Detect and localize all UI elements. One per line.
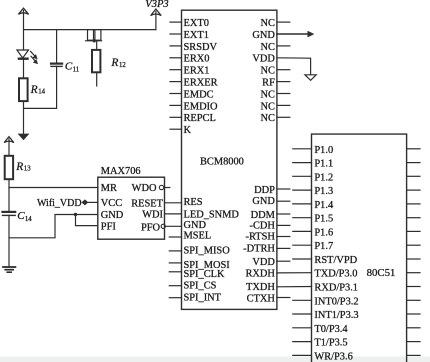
svg-text:P1.7: P1.7: [314, 241, 333, 252]
wire: PFI to GND net: [76, 215, 98, 226]
svg-text:EXT1: EXT1: [184, 30, 209, 41]
svg-text:-DTRH: -DTRH: [243, 244, 275, 255]
wire: WDI to LED_SNMD: [165, 213, 182, 215]
svg-text:Wifi_VDD: Wifi_VDD: [37, 198, 82, 209]
svg-text:VCC: VCC: [101, 198, 122, 209]
svg-text:DDM: DDM: [251, 210, 275, 221]
svg-text:P1.3: P1.3: [314, 186, 333, 197]
IC U3 80C51: [312, 134, 407, 362]
svg-text:GND: GND: [252, 196, 275, 207]
svg-text:RXDH: RXDH: [245, 268, 275, 279]
svg-text:R: R: [15, 161, 23, 173]
svg-text:P1.4: P1.4: [314, 200, 334, 211]
svg-text:SPI_INT: SPI_INT: [184, 293, 222, 304]
resistor R12: [92, 50, 126, 86]
wire: TXDH to RXD/P3.1: [277, 286, 312, 288]
svg-text:TXDH: TXDH: [246, 282, 275, 293]
svg-text:NC: NC: [260, 113, 275, 124]
svg-text:R: R: [30, 84, 38, 96]
svg-text:SPI_CS: SPI_CS: [184, 281, 217, 292]
resistor R14: [19, 78, 46, 101]
wire: R14 bottom to ground: [23, 101, 25, 134]
wire: MR net: [9, 187, 98, 189]
wire: VDD pin to ground arrow: [277, 58, 311, 75]
ground (filled arrow): [19, 134, 28, 139]
svg-text:EMDC: EMDC: [184, 89, 214, 100]
svg-text:INT1/P3.3: INT1/P3.3: [314, 310, 358, 321]
svg-text:ERX0: ERX0: [184, 54, 210, 65]
svg-text:RXD/P3.1: RXD/P3.1: [314, 283, 358, 294]
svg-text:P1.0: P1.0: [314, 145, 333, 156]
svg-text:SRSDV: SRSDV: [184, 42, 218, 53]
svg-text:T0/P3.4: T0/P3.4: [314, 324, 348, 335]
svg-text:BCM8000: BCM8000: [200, 157, 244, 168]
wire: arrow to R13: [8, 139, 10, 156]
svg-text:EXT0: EXT0: [184, 18, 209, 29]
junction: PFI/GND: [74, 213, 77, 216]
svg-text:RES: RES: [184, 197, 203, 208]
svg-text:REPCL: REPCL: [184, 113, 216, 124]
svg-text:SPI_MISO: SPI_MISO: [184, 246, 231, 257]
svg-text:K: K: [184, 125, 192, 136]
svg-text:GND: GND: [184, 220, 207, 231]
svg-text:ERXER: ERXER: [184, 78, 218, 89]
80C51 left pin labels: [314, 145, 358, 362]
svg-text:P1.6: P1.6: [314, 227, 333, 238]
wire: RXDH to TXD/P3.0: [277, 272, 312, 274]
svg-text:P1.2: P1.2: [314, 172, 333, 183]
svg-text:MSEL: MSEL: [184, 231, 212, 242]
svg-text:NC: NC: [260, 18, 275, 29]
capacitor C14: [3, 210, 33, 223]
svg-text:GND: GND: [252, 30, 275, 41]
BCM8000 left pin stubs (top group): [170, 22, 182, 129]
svg-text:12: 12: [119, 62, 126, 69]
svg-text:ERX1: ERX1: [184, 66, 210, 77]
svg-text:NC: NC: [260, 66, 275, 77]
svg-text:13: 13: [24, 165, 31, 172]
earth ground: [3, 267, 15, 272]
svg-text:-CDH: -CDH: [249, 220, 275, 231]
power arrow (above R13): [4, 137, 14, 143]
pin WDO bubble and stub: [159, 185, 170, 189]
svg-text:RESET: RESET: [131, 199, 163, 210]
svg-text:PFO: PFO: [141, 222, 161, 233]
wire: top rail: [24, 29, 156, 31]
pin PFO bubble: [161, 224, 165, 228]
ground (open arrow at VDD): [305, 75, 316, 81]
svg-text:NC: NC: [260, 101, 275, 112]
wire: GND net (C14 to MAX706 GND): [9, 215, 98, 238]
svg-text:80C51: 80C51: [367, 267, 396, 279]
svg-text:NC: NC: [260, 42, 275, 53]
BCM8000 left pin labels (top group): [184, 18, 219, 136]
svg-text:MAX706: MAX706: [101, 166, 141, 177]
wire: power arrow to LED anode: [23, 11, 25, 51]
power V3P3: [145, 0, 168, 30]
svg-text:-RTSH: -RTSH: [245, 232, 275, 243]
wire: LED cathode to R14: [23, 59, 25, 79]
svg-text:P1.5: P1.5: [314, 214, 333, 225]
svg-text:INT0/P3.2: INT0/P3.2: [314, 296, 358, 307]
ferrite bead FB1: [86, 30, 102, 50]
node Wifi_VDD: [37, 198, 98, 209]
svg-text:T1/P3.5: T1/P3.5: [314, 338, 347, 349]
BCM8000 right pin labels (top group): [252, 18, 275, 124]
svg-text:PFI: PFI: [101, 221, 117, 232]
svg-text:P1.1: P1.1: [314, 159, 333, 170]
wire: GND pin to arrow (top right): [277, 31, 314, 37]
svg-text:14: 14: [25, 216, 32, 223]
BCM8000 right pin stubs (bottom group): [277, 189, 290, 298]
svg-text:RST/VPD: RST/VPD: [314, 255, 357, 266]
svg-text:R: R: [110, 57, 118, 69]
svg-text:MR: MR: [101, 183, 117, 194]
wire: PFO to GND pin: [165, 225, 181, 227]
svg-text:11: 11: [73, 67, 80, 74]
capacitor C11: [51, 30, 79, 74]
svg-text:VDD: VDD: [252, 54, 275, 65]
svg-text:EMDIO: EMDIO: [184, 101, 219, 112]
svg-text:LED_SNMD: LED_SNMD: [184, 210, 240, 221]
BCM8000 right pin labels (bottom group): [243, 185, 275, 304]
wire: C14 bottom to earth ground: [8, 215, 10, 267]
power arrow (top-left rail): [18, 8, 28, 14]
svg-text:NC: NC: [260, 89, 275, 100]
svg-text:SPI_CLK: SPI_CLK: [184, 269, 225, 280]
IC U1 BCM8000: [182, 10, 277, 309]
wire: RESET to RES: [165, 202, 182, 204]
svg-text:DDP: DDP: [254, 185, 275, 196]
svg-text:CTXH: CTXH: [247, 293, 276, 304]
svg-text:14: 14: [38, 89, 45, 96]
80C51 left pin wires: [293, 149, 312, 356]
svg-text:WR/P3.6: WR/P3.6: [314, 351, 352, 362]
svg-text:WDO: WDO: [132, 183, 157, 194]
svg-text:VDD: VDD: [252, 257, 275, 268]
svg-text:RF: RF: [262, 78, 275, 89]
80C51 right pin stubs: [407, 149, 420, 356]
resistor R13: [5, 156, 31, 179]
wire: bottom connector to C11: [24, 66, 57, 108]
svg-text:GND: GND: [101, 210, 124, 221]
IC U2 MAX706: [98, 166, 165, 239]
BCM8000 right pin stubs (top group): [277, 22, 290, 117]
svg-text:WDI: WDI: [142, 210, 163, 221]
BCM8000 left pin labels (bottom group): [184, 197, 240, 303]
wire: R13 bottom to C14: [8, 179, 10, 211]
LED D1: [17, 50, 38, 64]
svg-text:V3P3: V3P3: [145, 0, 168, 10]
BCM8000 left pin stubs (bottom group): [169, 237, 181, 298]
svg-text:TXD/P3.0: TXD/P3.0: [314, 269, 357, 280]
